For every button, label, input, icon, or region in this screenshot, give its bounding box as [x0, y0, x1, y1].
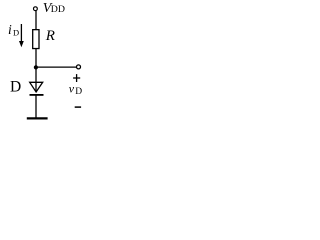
svg-text:R: R — [45, 28, 55, 44]
diode D cathode bar — [30, 94, 44, 96]
svg-text:D: D — [75, 87, 82, 97]
wire diode to bottom rail — [35, 96, 37, 118]
svg-text:v: v — [69, 81, 75, 95]
resistor R — [33, 30, 39, 49]
label minus — [75, 106, 81, 108]
label plus — [73, 74, 80, 82]
terminal VDD — [34, 7, 38, 11]
svg-text:DD: DD — [51, 4, 65, 15]
wire node to output terminal — [36, 66, 76, 68]
label VDD — [43, 1, 65, 16]
wire node to diode — [35, 67, 37, 91]
bottom rail wire — [27, 117, 48, 119]
current arrow iD — [19, 24, 24, 47]
svg-text:D: D — [13, 28, 19, 38]
wire resistor to node — [35, 49, 37, 68]
diode D triangle — [30, 82, 43, 92]
junction node — [34, 65, 38, 69]
terminal output — [77, 65, 81, 69]
wire VDD terminal to resistor — [35, 11, 37, 30]
label iD — [8, 22, 19, 38]
svg-text:i: i — [8, 22, 12, 37]
label vD — [69, 81, 83, 97]
svg-text:D: D — [10, 78, 21, 95]
